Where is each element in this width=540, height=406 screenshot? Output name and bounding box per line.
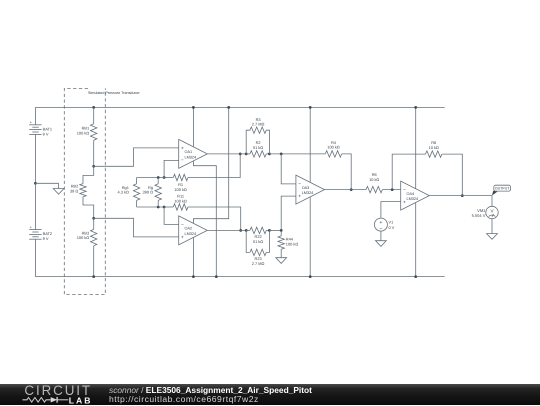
svg-text:0 V: 0 V	[389, 225, 395, 230]
svg-text:+: +	[403, 201, 406, 206]
svg-text:Simulated Pressure Transducer: Simulated Pressure Transducer	[88, 91, 140, 95]
svg-text:LM324: LM324	[184, 156, 196, 160]
node R11 to OA2 output	[239, 229, 242, 232]
svg-text:LAB: LAB	[69, 396, 93, 406]
op-amp OA3 LM324	[296, 175, 325, 204]
svg-text:100 kΩ: 100 kΩ	[327, 145, 340, 150]
svg-text:OA3: OA3	[302, 186, 310, 190]
node R1 to OA1 output	[239, 153, 242, 156]
node RB3 bottom rail	[92, 275, 95, 278]
wire OA4 V- stub	[415, 203, 417, 277]
resistor Rg1 4.3k	[118, 178, 140, 208]
resistor R44 100k	[278, 230, 298, 257]
node OA3 V- rail	[309, 275, 312, 278]
wire RB1 node to OA1 +	[94, 148, 179, 166]
wire OA1 V+ stub	[192, 107, 194, 146]
wire OA1 V- route	[193, 161, 216, 277]
node OA2 V- rail	[192, 275, 195, 278]
resistor R6 10k	[366, 172, 401, 193]
wire OA1 output	[207, 153, 246, 155]
node Y	[163, 206, 166, 209]
node R4 to OA3 output	[350, 188, 353, 191]
svg-text:5.004 V: 5.004 V	[472, 213, 486, 218]
ground (R44)	[276, 258, 287, 264]
wire gain row bottom	[137, 206, 165, 208]
node R23 right	[268, 229, 271, 232]
node OA4 V+ rail	[414, 106, 417, 109]
voltmeter VM1 5.004V	[472, 196, 499, 234]
node R23 left	[245, 229, 248, 232]
node OA4 V- rail	[414, 275, 417, 278]
node OA1 V- rail	[215, 275, 218, 278]
wire OA3 output	[325, 189, 367, 191]
wire RB3 node to OA2 +	[94, 218, 179, 237]
node X	[163, 176, 166, 179]
svg-text:9 V: 9 V	[43, 236, 49, 241]
wire -9V bottom rail	[35, 276, 444, 278]
node R3 left	[245, 153, 248, 156]
resistor R22 51k	[246, 227, 269, 244]
svg-text:390 Ω: 390 Ω	[143, 190, 154, 195]
resistor R11 100k feedback	[164, 193, 241, 230]
resistor Rg 390ohm	[143, 178, 162, 208]
resistor R4 100k feedback	[325, 140, 351, 190]
svg-text:100 kΩ: 100 kΩ	[77, 235, 90, 240]
svg-text:9 V: 9 V	[43, 131, 49, 136]
node OA4 - feedback	[391, 188, 394, 191]
wire OA3 V+ stub	[309, 107, 311, 182]
node OA3 - branch	[280, 153, 283, 156]
wire OA2 output	[207, 229, 246, 231]
wire OA4 V+ stub	[415, 107, 417, 188]
wire gain row top	[137, 177, 165, 179]
node OA1 V+ rail	[192, 106, 195, 109]
svg-text:2.7 MΩ: 2.7 MΩ	[252, 122, 265, 127]
node OA2 V+ rail	[227, 106, 230, 109]
wire OA3 V- stub	[309, 197, 311, 277]
wire OA3 + input	[281, 196, 296, 230]
battery BAT2 9V	[29, 183, 52, 276]
node OA3 V+ rail	[309, 106, 312, 109]
svg-text:LM324: LM324	[184, 232, 196, 236]
node battery midpoint	[34, 182, 37, 185]
node RB2-RB3	[92, 217, 95, 220]
node R8 to output	[461, 194, 464, 197]
resistor RB1 100k	[77, 106, 97, 166]
svg-text:10 kΩ: 10 kΩ	[369, 177, 379, 182]
resistor R23 2.7M parallel	[246, 230, 269, 266]
svg-text:10 kΩ: 10 kΩ	[429, 145, 439, 150]
svg-text:+: +	[30, 225, 33, 229]
wire +9V top rail	[35, 106, 444, 108]
svg-text:39 Ω: 39 Ω	[70, 189, 78, 194]
wire to ground	[35, 183, 58, 188]
annotation box Simulated Pressure Transducer	[64, 88, 140, 294]
svg-text:LM324: LM324	[406, 197, 418, 201]
svg-text:−: −	[379, 226, 382, 232]
battery BAT1 9V	[29, 107, 52, 183]
voltage source V1 0V	[374, 218, 394, 241]
svg-text:100 kΩ: 100 kΩ	[174, 187, 187, 192]
svg-text:V1: V1	[389, 219, 394, 224]
svg-text:OUTPUT: OUTPUT	[495, 187, 510, 191]
svg-text:100 kΩ: 100 kΩ	[77, 130, 90, 135]
svg-text:2.7 MΩ: 2.7 MΩ	[252, 261, 265, 266]
op-amp OA2 LM324	[179, 216, 208, 245]
svg-text:51 kΩ: 51 kΩ	[253, 239, 263, 244]
op-amp OA1 LM324	[179, 139, 208, 168]
svg-text:4.3 kΩ: 4.3 kΩ	[118, 190, 129, 195]
node Rg top	[157, 176, 160, 179]
svg-text:+: +	[298, 195, 301, 200]
wire R22 to R44 node	[269, 229, 281, 231]
svg-text:OA4: OA4	[406, 192, 414, 196]
node R44 top	[280, 229, 283, 232]
wire R2 to OA3 node	[269, 153, 325, 155]
svg-text:100 kΩ: 100 kΩ	[286, 241, 299, 246]
ground (VM1)	[487, 234, 498, 240]
svg-text:OA1: OA1	[184, 150, 192, 154]
resistor R2 51k	[246, 140, 269, 157]
resistor R1 100k feedback	[164, 154, 240, 192]
svg-text:OA2: OA2	[184, 227, 192, 231]
resistor RB3 100k	[77, 218, 97, 276]
resistor R8 10k feedback	[392, 140, 462, 195]
resistor R3 2.7M parallel	[246, 117, 269, 154]
wire OA3 - input	[281, 154, 296, 184]
resistor RB2 39ohm	[70, 166, 94, 218]
wire OA1 - to node X	[164, 160, 179, 177]
op-amp OA4 LM324	[401, 181, 430, 210]
node OUTPUT flag	[492, 185, 511, 195]
node R3 right	[268, 153, 271, 156]
svg-text:LM324: LM324	[302, 191, 314, 195]
wire OA2 V- stub	[192, 237, 194, 276]
node Rg bottom	[157, 206, 160, 209]
svg-text:+: +	[30, 121, 33, 125]
wire OA2 - to node Y	[164, 207, 179, 224]
wire OA4 + input	[381, 202, 401, 219]
svg-text:+: +	[181, 235, 184, 240]
wire OA2 V+ route	[193, 107, 228, 223]
svg-text:100 kΩ: 100 kΩ	[174, 198, 187, 203]
wire OA4 output	[429, 195, 492, 197]
svg-text:51 kΩ: 51 kΩ	[253, 145, 263, 150]
ground (battery midpoint)	[53, 189, 64, 195]
node RB1-RB2	[92, 165, 95, 168]
ground (V1)	[376, 241, 387, 247]
